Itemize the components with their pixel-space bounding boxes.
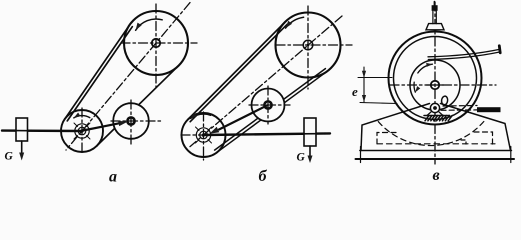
driven pulley (figure b, lower left) <box>181 112 226 160</box>
svg-text:G: G <box>297 152 306 164</box>
motor pulley circle (figure v) <box>410 60 460 110</box>
belt run right (figure a) <box>97 66 179 146</box>
axis line b (dash-dot through pulley centers) <box>190 16 342 147</box>
force arrow G (figure b) <box>309 146 311 157</box>
driving pulley (figure b, large) <box>276 6 353 89</box>
roller hub (figure b) <box>264 101 271 108</box>
oscillation arrow lower (figure v) <box>414 82 420 92</box>
svg-text:е: е <box>352 84 358 99</box>
eccentricity dimension e (figure v) <box>358 67 397 104</box>
pivot pin (figure v) <box>427 103 443 115</box>
adjusting bolt stem (figure v) <box>432 10 434 24</box>
pivot support ground hatching (figure v) <box>424 116 452 121</box>
rotation arrow (figure a, large pulley) <box>136 19 163 30</box>
belt run left (figure a) <box>65 25 133 121</box>
axis line a (dash-dot through pulley centers) <box>66 3 190 150</box>
belt run right (figure b) <box>215 69 328 153</box>
lever arm arrow to roller (figure a) <box>83 123 119 130</box>
svg-text:G: G <box>5 151 14 163</box>
motor horizontal centerline (figure v) <box>390 84 496 86</box>
motor hub (figure v) <box>431 81 439 89</box>
tension roller (figure a) <box>111 100 163 146</box>
lever arm arrow to driven pulley (figure b) <box>219 106 267 130</box>
rotation arrow (figure b, large pulley) <box>286 17 304 28</box>
svg-text:б: б <box>259 168 268 185</box>
belt lower run visible bar (figure v) <box>477 107 501 112</box>
adjusting bolt boss (figure v) <box>426 24 444 30</box>
belt run left (figure b) <box>188 22 287 122</box>
motor rim circle (figure v) <box>394 37 477 120</box>
rotation arrow (figure a, driven pulley) <box>74 113 90 118</box>
force arrow G (figure a) <box>21 141 23 154</box>
hidden slot right (figure v) <box>474 132 493 146</box>
oscillation arrow upper (figure v) <box>418 63 433 73</box>
weight block G (figure b) <box>304 118 316 146</box>
hidden slot bottom line (figure v) <box>377 143 495 145</box>
weight block G (figure a) <box>16 118 28 141</box>
adjusting bolt head (figure v) <box>432 5 438 11</box>
svg-text:а: а <box>109 169 117 186</box>
lever bar (figure b) <box>204 133 330 135</box>
driven pulley (figure a, lower left) <box>61 108 103 154</box>
belt lower run hidden (figure v) <box>441 106 477 111</box>
base band (figure v) <box>356 147 515 163</box>
rotation arrow (figure b, driven pulley) <box>191 113 211 119</box>
svg-text:в: в <box>433 167 440 184</box>
base plate outline (figure v) <box>361 104 511 151</box>
motor vertical centerline (figure v) <box>434 2 436 164</box>
lever bar (figure a) <box>2 129 81 132</box>
belt upper run (figure v) <box>428 49 500 59</box>
swing arc dashed (figure v) <box>378 122 484 146</box>
tension roller (figure b) <box>249 86 290 124</box>
motor outer casing circle (figure v) <box>389 32 482 125</box>
driving pulley (figure a, large) <box>121 4 197 87</box>
label 0 pivot point (figure v) <box>441 96 448 106</box>
belt end cap (figure v) <box>498 46 502 53</box>
roller hub (figure a) <box>127 117 134 124</box>
hidden slot left (figure v) <box>377 133 396 144</box>
